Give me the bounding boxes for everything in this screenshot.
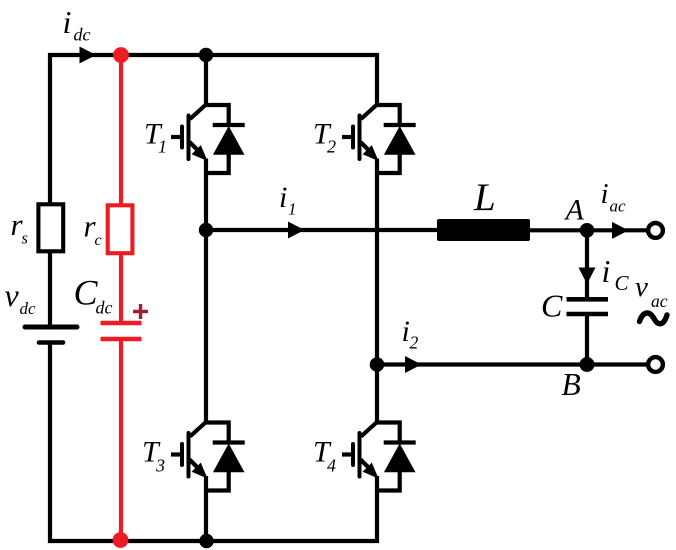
resistor r_c (red) [108,205,133,253]
svg-text:i: i [279,181,287,214]
arrow i1 [288,222,305,239]
wire: left leg bottom segment to bottom bus [204,491,208,541]
transistor T1 (IGBT) [171,105,208,175]
wire: capacitor C to node B [585,314,589,365]
node A [580,223,595,238]
wire: left leg middle segment through node i1 [204,174,208,423]
wire: top DC bus from left corner to right leg [50,55,377,329]
arrow i2 [405,356,422,373]
antiparallel diode of T2 [376,105,416,173]
svg-text:ac: ac [610,197,627,216]
capacitor C bottom plate [567,312,609,317]
svg-text:dc: dc [96,298,113,318]
svg-text:2: 2 [410,333,419,353]
node: red junction top (C_dc branch tap) [113,47,129,63]
svg-text:i: i [602,253,611,289]
terminal circle top right [648,223,663,238]
AC tilde symbol [640,313,668,324]
wire: left leg top segment (T1 collector feed) [204,55,208,105]
svg-text:i: i [601,178,609,210]
capacitor C_dc top plate (red) [101,321,142,326]
svg-text:4: 4 [327,456,336,476]
node: red junction bottom [113,532,129,548]
antiparallel diode of T1 [205,105,245,173]
svg-text:L: L [473,176,496,219]
antiparallel diode of T3 [205,423,245,491]
svg-text:c: c [95,232,102,249]
antiparallel diode of T4 [376,423,416,491]
transistor T3 (IGBT) [171,422,208,492]
wire: node A down to capacitor C [585,230,589,297]
wire: i1 output wire from left leg midpoint to inductor [206,228,437,232]
node: black junction top (left leg tap) [199,48,213,62]
arrow i_C [579,268,596,285]
arrow i_dc on top bus [80,47,97,64]
svg-text:i: i [63,4,72,40]
node B [580,357,595,372]
svg-text:C: C [541,288,563,324]
battery v_dc long plate [25,325,77,330]
svg-text:1: 1 [288,200,297,219]
svg-text:s: s [22,229,28,248]
svg-text:3: 3 [155,456,165,476]
terminal circle bottom right [648,357,663,372]
arrow i_ac [612,222,629,239]
wire: inductor to terminal through node A [530,228,650,232]
resistor r_s [38,204,63,251]
inductor L [437,219,530,241]
node i1 (left leg midpoint) [199,223,213,237]
wire: capacitor branch upper (red) [119,55,123,204]
polarity plus sign (dark red) [133,304,148,319]
svg-text:ac: ac [651,291,668,311]
node i2 on right leg [370,357,385,372]
svg-text:dc: dc [74,25,91,45]
wire: i2 wire from right leg midpoint to node B and terminal [377,362,650,366]
svg-text:v: v [635,271,648,303]
capacitor C_dc bottom plate (red) [101,337,142,342]
wire: bottom DC bus with left rail lower part and right leg lower part [50,341,377,542]
svg-text:1: 1 [158,137,167,157]
node: black junction bottom (left leg) [199,534,213,548]
svg-text:2: 2 [327,137,336,157]
transistor T4 (IGBT) [342,422,379,492]
svg-text:C: C [615,271,630,295]
svg-text:A: A [564,194,585,227]
wire: red segment below C_dc to bottom bus [119,339,123,540]
wire: right leg middle segment through i2 node [375,174,379,423]
capacitor C top plate [567,297,609,302]
transistor T2 (IGBT) [342,105,379,175]
svg-text:v: v [5,277,20,313]
svg-text:dc: dc [20,299,37,318]
battery v_dc short plate [39,340,63,345]
wire: red segment between r_c and C_dc [119,255,123,323]
svg-text:B: B [562,367,581,402]
